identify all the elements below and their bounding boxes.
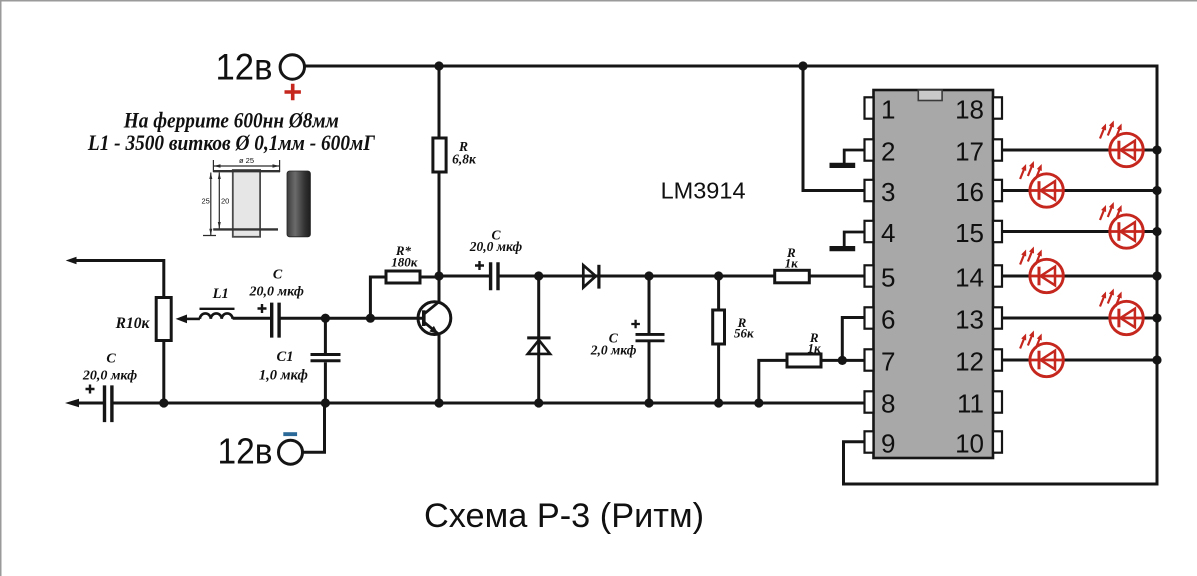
pin 10 box (993, 431, 1002, 452)
pin 16 box (993, 180, 1002, 201)
pin 12 box (993, 349, 1002, 370)
node right bus / LED row pin 16 (1152, 186, 1161, 195)
wire pin 16 to LED and right bus (1000, 189, 1030, 192)
plus black near cap L1 (258, 304, 267, 313)
svg-text:LM3914: LM3914 (661, 178, 746, 204)
wire pin 17 to LED and right bus (1000, 149, 1110, 152)
svg-text:10: 10 (955, 428, 984, 458)
resistor R 6,8k body (433, 138, 446, 172)
node bus / diode D2 (534, 398, 543, 407)
node right bus / LED row pin 12 (1152, 355, 1161, 364)
svg-text:L1 - 3500 витков Ø 0,1мм - 600: L1 - 3500 витков Ø 0,1мм - 600мГ (87, 130, 375, 155)
minus sign blue (283, 432, 297, 436)
wire R 1k lower branch to pins 6/7 (759, 360, 788, 403)
pin 4 box (865, 221, 874, 242)
ferrite bobbin drawing (233, 170, 260, 237)
svg-text:12в: 12в (218, 430, 273, 471)
svg-text:8: 8 (881, 388, 895, 418)
node mid rail / C 2,0 branch (644, 271, 653, 280)
pin 17 box (993, 139, 1002, 160)
node pins 6-7 tie (838, 356, 847, 365)
svg-text:R10к: R10к (115, 315, 151, 332)
LED at pin 14 (1020, 247, 1063, 293)
IC notch (918, 90, 942, 101)
wire pin 3 branch from top rail (803, 66, 867, 191)
wire R 56k branch (717, 276, 720, 403)
ferrite rod (black cylinder) (287, 171, 310, 237)
svg-text:3: 3 (881, 177, 895, 207)
terminal 12v+ (280, 55, 304, 79)
node right bus / LED row pin 13 (1152, 313, 1161, 322)
node mid rail / collector / R* (434, 271, 443, 280)
pin 13 box (993, 307, 1002, 328)
LED at pin 17 (1100, 121, 1143, 167)
diode D1 horizontal (583, 265, 596, 287)
LED at pin 15 (1100, 202, 1143, 248)
node mid rail / R 56k (714, 271, 723, 280)
plus sign red (285, 84, 301, 100)
node top rail / pin 3 branch (798, 61, 807, 70)
wire pin 15 to LED and right bus (1000, 230, 1110, 233)
wire emitter to bottom bus (438, 334, 441, 403)
LED at pin 16 (1020, 161, 1063, 207)
svg-text:18: 18 (955, 94, 984, 124)
node bus / R 1k lower (754, 398, 763, 407)
wire zener branch (537, 276, 540, 403)
resistor R 56k body (713, 310, 725, 344)
node bus / R 56k (714, 398, 723, 407)
svg-text:20,0 мкф: 20,0 мкф (249, 284, 304, 299)
wire pin 14 to LED and right bus (1000, 275, 1030, 278)
svg-text:11: 11 (957, 388, 984, 418)
wire collector chain through R 6,8k (438, 66, 441, 140)
node base wire / C1 (321, 314, 330, 323)
dimension lines (213, 160, 279, 172)
resistor R10k (potentiometer) body (156, 298, 171, 341)
svg-text:7: 7 (881, 346, 895, 376)
node mid rail / diode D2 branch (534, 271, 543, 280)
IC U1 LM3914 body (874, 90, 994, 458)
pin 6 box (865, 307, 874, 328)
svg-text:12: 12 (955, 346, 984, 376)
capacitor C 2,0 mkf plates (636, 334, 665, 340)
wire 12v- terminal branch (302, 403, 325, 452)
svg-text:6: 6 (881, 304, 895, 334)
wire pin 13 to LED and right bus (1000, 317, 1110, 320)
svg-text:1к: 1к (808, 340, 822, 355)
pin 1 box (865, 97, 874, 118)
pin 15 box (993, 221, 1002, 242)
resistor R 1k upper body (775, 270, 810, 283)
node bus / emitter (434, 398, 443, 407)
pin 11 box (993, 391, 1002, 412)
arrow top-left output (66, 257, 77, 265)
wiper arrow from L1 to R10k (186, 318, 200, 321)
wire mid rail segments (439, 275, 490, 278)
pin 9 box (865, 431, 874, 452)
wire C 2,0 branch (648, 276, 651, 403)
inductor L1 (200, 308, 235, 310)
pin 5 box (865, 265, 874, 286)
capacitor C 20,0 mkf (bottom left) (105, 385, 112, 422)
svg-text:20,0 мкф: 20,0 мкф (82, 368, 137, 383)
svg-text:На феррите 600нн Ø8мм: На феррите 600нн Ø8мм (123, 107, 339, 132)
wire R10k branches (162, 340, 165, 404)
node bus / C1 / 12v- terminal (321, 398, 330, 407)
svg-text:15: 15 (955, 218, 984, 248)
svg-text:6,8к: 6,8к (452, 152, 477, 167)
wire main loop: 12v+ top rail, right bus, bottom return to pin 9 (304, 66, 1157, 484)
svg-text:1: 1 (881, 94, 895, 124)
svg-text:2,0 мкф: 2,0 мкф (590, 343, 637, 358)
svg-text:5: 5 (881, 262, 895, 292)
node right bus / LED row pin 15 (1152, 227, 1161, 236)
svg-text:C: C (106, 352, 116, 367)
svg-text:C1: C1 (277, 349, 294, 365)
wire C1 branch (324, 318, 327, 403)
capacitor C1 1,0 mkf plates (311, 355, 341, 361)
pin 2 box (865, 139, 874, 160)
LED at pin 13 (1100, 289, 1143, 335)
wire bottom bus (76, 402, 867, 405)
ground at pin 2 (844, 150, 867, 163)
svg-text:180к: 180к (391, 254, 418, 269)
svg-text:20: 20 (221, 197, 229, 206)
svg-text:2: 2 (881, 136, 895, 166)
node base wire / R* (366, 314, 375, 323)
resistor R* 180k body (386, 271, 420, 283)
pin 3 box (865, 180, 874, 201)
wire base line from cap to transistor (233, 317, 271, 320)
svg-text:ø 25: ø 25 (239, 156, 254, 165)
node top rail / R 6,8k (434, 61, 443, 70)
svg-text:25: 25 (201, 197, 209, 206)
svg-text:4: 4 (881, 218, 895, 248)
node bus / R10k (159, 398, 168, 407)
svg-text:1,0 мкф: 1,0 мкф (259, 367, 308, 383)
svg-text:Схема Р-3 (Ритм): Схема Р-3 (Ритм) (424, 497, 704, 535)
svg-text:56к: 56к (734, 326, 754, 341)
svg-text:L1: L1 (212, 286, 229, 302)
node bus / C 2,0 (644, 398, 653, 407)
pin 18 box (993, 97, 1002, 118)
svg-text:C: C (273, 268, 283, 283)
capacitor C 20,0 mkf (after L1) (272, 303, 279, 338)
svg-text:9: 9 (881, 428, 895, 458)
wire R* 180k branch (370, 277, 387, 318)
terminal 12v- (279, 440, 303, 464)
svg-text:12в: 12в (216, 46, 273, 87)
diode D2 vertical (points up) (528, 340, 550, 354)
svg-text:20,0 мкф: 20,0 мкф (469, 239, 523, 254)
pin 8 box (865, 391, 874, 412)
arrow bottom-left output (65, 399, 79, 407)
svg-text:16: 16 (955, 177, 984, 207)
node right bus / LED row pin 17 (1152, 145, 1161, 154)
transistor Q1 (418, 302, 451, 335)
node right bus / LED row pin 14 (1152, 271, 1161, 280)
svg-text:17: 17 (955, 136, 984, 166)
pin 7 box (865, 349, 874, 370)
ground at pin 4 (844, 232, 867, 246)
LED at pin 12 (1020, 331, 1063, 377)
capacitor C 20,0 mkf (top, series with diode) (491, 262, 498, 290)
svg-text:1к: 1к (785, 255, 799, 270)
pin 14 box (993, 265, 1002, 286)
svg-text:13: 13 (955, 304, 984, 334)
svg-text:14: 14 (955, 262, 984, 292)
wire pin 12 to LED and right bus (1000, 359, 1030, 362)
resistor R 1k lower body (787, 354, 821, 367)
